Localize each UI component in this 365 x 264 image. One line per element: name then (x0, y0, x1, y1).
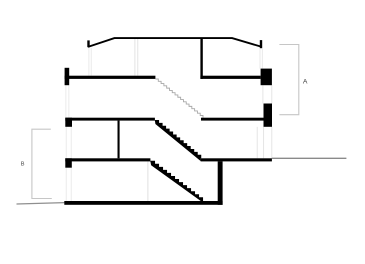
roof polyline (88, 38, 260, 47)
stair 1 steps (155, 121, 201, 159)
floor2 right slab (201, 118, 264, 121)
floor1 left end cap (65, 68, 70, 85)
terrain ground line left (17, 203, 65, 204)
faint left wall edge pair floor3-ground (66, 168, 71, 201)
lower right wall (218, 161, 223, 204)
stair 2 flight band (150, 161, 205, 204)
terrain ground line right (272, 157, 347, 159)
faint right wall edge pair between block1 and block2 (263, 85, 272, 103)
dimension bracket B (32, 129, 52, 198)
faint right wall edge pair below roof tick (260, 49, 262, 69)
floor1 left slab (65, 76, 156, 79)
svg-text:B: B (21, 162, 25, 168)
faint stairwell line below floor3 end (147, 161, 149, 201)
grey stair (upper flight, elevation) (156, 79, 203, 118)
roof right tick (260, 40, 262, 48)
ground slab (64, 201, 222, 205)
dimension bracket A (279, 45, 298, 115)
svg-text:A: A (303, 78, 308, 85)
floor2 left end cap (65, 118, 72, 127)
interior wall floor2-floor3 (118, 121, 120, 159)
right wall block1 (261, 69, 272, 86)
floor3 left end cap (65, 158, 72, 167)
right wall block2 (264, 104, 273, 127)
floor3 left slab (65, 158, 150, 161)
floor2 left slab (65, 118, 155, 121)
floor1 right slab (200, 76, 260, 79)
faint wall projection line pair mid roof (135, 39, 138, 76)
floor3 right slab (201, 158, 272, 161)
faint right wall edge lines between block2 and floor3 (257, 127, 272, 159)
faint wall projection line pair left of roof tick (89, 48, 91, 76)
roof left tick (87, 40, 89, 47)
upper wall (roof to floor1) (200, 38, 202, 79)
faint left wall edge pair floor2-floor3 (66, 127, 71, 159)
stair 1 flight band (155, 121, 201, 161)
faint left wall edge pair floor1-floor2 (66, 85, 69, 118)
stair 2 steps (150, 161, 202, 201)
